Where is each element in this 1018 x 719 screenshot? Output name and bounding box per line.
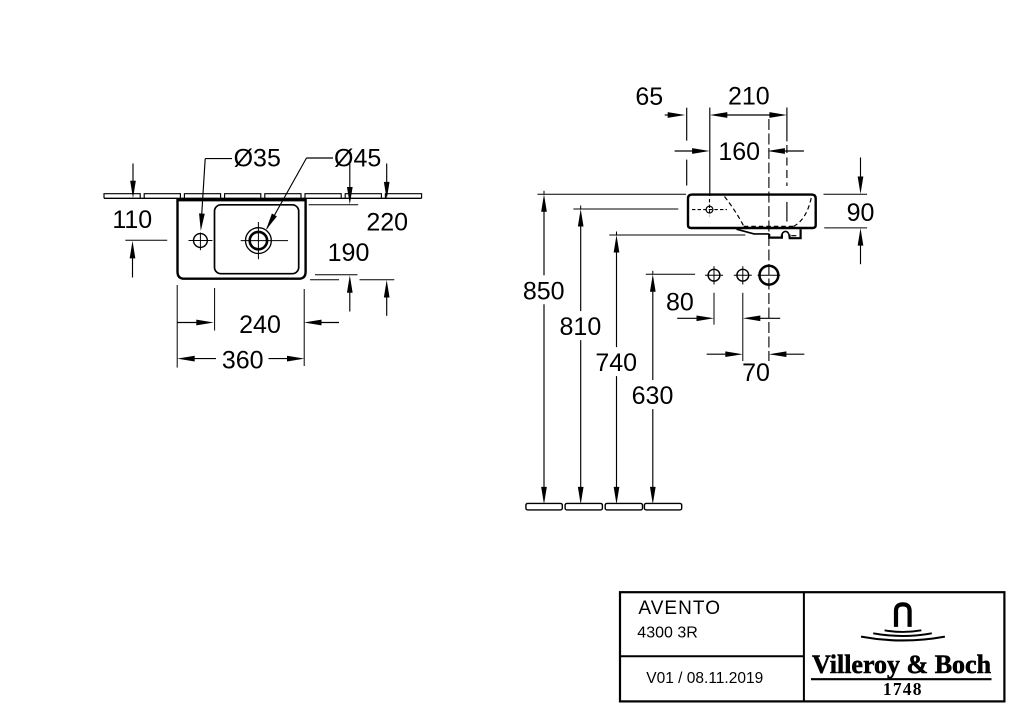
svg-text:1748: 1748 <box>883 679 923 699</box>
dim 740 bottom arrow <box>616 376 618 490</box>
dim 190 ext line top <box>309 204 359 206</box>
logo underline <box>811 678 992 680</box>
wall hatch segments <box>104 194 140 199</box>
svg-text:Villeroy & Boch: Villeroy & Boch <box>812 650 992 679</box>
tap hole cross (front view) <box>692 209 727 211</box>
leader arrow Ø45 <box>263 214 277 232</box>
dim 80 tick hole2 <box>742 293 744 361</box>
dim 160 line left <box>675 150 696 152</box>
drain inner circle <box>250 232 267 249</box>
title block frame <box>620 592 1004 701</box>
dim 240 right arrow <box>304 320 322 326</box>
dim 630 top arrow <box>652 271 654 275</box>
dim 110 bottom arrow <box>132 254 134 278</box>
svg-text:850: 850 <box>523 277 565 305</box>
ext line basin right <box>303 289 305 366</box>
svg-text:70: 70 <box>742 359 770 387</box>
ext line bowl left <box>214 288 216 331</box>
leader line Ø35 <box>205 158 232 160</box>
leader arrow Ø35 <box>198 213 205 231</box>
title block vertical divider <box>803 592 805 701</box>
dim 190 ext line bottom <box>315 274 358 276</box>
svg-text:240: 240 <box>239 311 281 339</box>
svg-text:210: 210 <box>728 83 770 111</box>
dim 90 top arrow <box>860 158 862 181</box>
svg-text:65: 65 <box>635 83 663 111</box>
tap hole crosshair <box>189 240 213 242</box>
drain centerline <box>768 119 770 361</box>
basin outer outline (top view) <box>178 200 306 279</box>
ext tick basin-left-edge <box>686 108 688 141</box>
bowl dashed bottom <box>744 225 794 227</box>
dim 220 ext line bottom <box>310 279 339 281</box>
basin outline (front view) <box>688 195 816 228</box>
leader line Ø45 <box>307 157 334 159</box>
floor hatch <box>526 503 562 510</box>
svg-text:80: 80 <box>666 288 694 316</box>
dim 850 top arrow <box>543 191 545 195</box>
dim 110 extension line <box>125 239 167 241</box>
wall hatch line (top view) <box>104 197 422 199</box>
fixing hole right <box>737 269 749 281</box>
tap hole circle Ø35 <box>194 234 208 248</box>
logo arc 3 <box>861 637 945 641</box>
svg-text:190: 190 <box>328 239 370 267</box>
svg-text:360: 360 <box>222 347 264 375</box>
drain hole (front view) <box>760 266 779 285</box>
dim 810 ext line <box>573 208 678 210</box>
svg-text:740: 740 <box>595 349 637 377</box>
svg-text:V01 / 08.11.2019: V01 / 08.11.2019 <box>646 670 763 687</box>
dim 850 bottom arrow <box>543 304 545 490</box>
dim 110 top arrow <box>132 164 134 183</box>
dim 360 left arrow <box>177 356 195 362</box>
dim 740 top arrow <box>616 232 618 236</box>
dim 360 right arrow <box>269 358 291 360</box>
dim 630 bottom arrow <box>652 409 654 490</box>
title block horizontal divider <box>620 655 804 657</box>
bowl dashed right curve <box>794 198 812 226</box>
dim 810 top arrow <box>580 206 582 210</box>
logo arch <box>896 604 910 627</box>
inner bowl outline (top view) <box>215 205 299 274</box>
ext tick 210-right <box>786 108 788 142</box>
dim 740 ext line <box>609 234 745 236</box>
svg-text:AVENTO: AVENTO <box>638 598 721 619</box>
svg-text:Ø45: Ø45 <box>334 144 381 172</box>
dim 90 bottom arrow <box>858 228 864 246</box>
svg-text:220: 220 <box>366 209 408 237</box>
dim 850 ext line <box>538 193 687 195</box>
dim 190 bottom arrow <box>349 288 351 312</box>
dim 240 left arrow <box>178 322 200 324</box>
dim 80 tick hole1 <box>713 293 715 325</box>
dim 70 arrows <box>707 353 728 355</box>
svg-text:810: 810 <box>560 313 602 341</box>
logo arc 1 <box>885 630 922 632</box>
dim 80 arrows <box>677 317 700 319</box>
dim 90 ext top <box>824 193 868 195</box>
logo arc 2 <box>873 633 932 636</box>
dim 220 bottom arrow <box>386 293 388 316</box>
dim 630 ext line <box>646 273 695 275</box>
ext line basin left <box>176 285 178 368</box>
svg-text:Ø35: Ø35 <box>234 144 281 172</box>
dim 810 bottom arrow <box>580 340 582 490</box>
bowl dashed left curve <box>725 197 744 227</box>
dim 220 top arrow <box>386 164 388 186</box>
dim 65 line+arrow <box>665 114 672 116</box>
drain crosshair <box>241 240 288 242</box>
fixing hole left <box>708 269 720 281</box>
svg-text:110: 110 <box>112 206 152 234</box>
ext tick tap-center <box>709 108 711 197</box>
dim 90 ext bottom <box>824 227 867 229</box>
dim 190 top arrow <box>349 164 351 191</box>
svg-text:4300 3R: 4300 3R <box>637 624 698 641</box>
dim 160 line right <box>767 148 785 154</box>
svg-text:90: 90 <box>847 199 875 227</box>
drain outer circle Ø45 <box>246 228 272 254</box>
dim 210 arrows <box>710 112 728 118</box>
svg-text:630: 630 <box>632 382 674 410</box>
drain fitting outline <box>737 229 770 234</box>
svg-text:160: 160 <box>718 138 760 166</box>
